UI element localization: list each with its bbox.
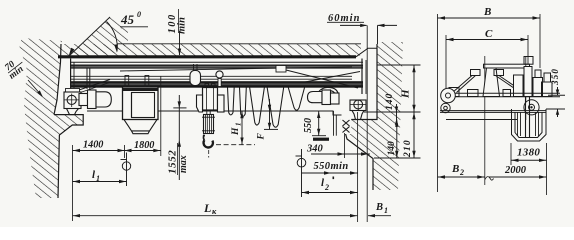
bridge right end plate: [361, 59, 363, 95]
right trolley wheel: [524, 100, 539, 115]
right wheel: [354, 100, 363, 109]
left tie rod: [73, 80, 110, 93]
extension pair under bridge end: [333, 111, 335, 136]
svg-text:B: B: [483, 6, 491, 18]
wall corner notch: [356, 48, 378, 57]
bridge stiffener: [86, 68, 88, 89]
dim H: [413, 65, 415, 112]
svg-text:1: 1: [384, 206, 388, 215]
right truck cable bracket: [316, 87, 339, 101]
svg-text:2: 2: [459, 168, 464, 177]
ext lines: [72, 145, 74, 221]
label 350: [550, 68, 560, 86]
center line: [484, 56, 486, 185]
dim 100 min arrow: [179, 31, 181, 55]
festoon loop 1: [228, 87, 235, 115]
svg-text:F: F: [257, 133, 267, 141]
svg-text:60min: 60min: [328, 13, 360, 24]
right festoon wire end: [305, 72, 360, 83]
dim C: [446, 39, 528, 41]
svg-text:1: 1: [96, 174, 100, 183]
hoist axis line: [525, 56, 527, 120]
left wall inner face: [54, 44, 61, 115]
platform lines: [446, 92, 560, 94]
dim 140 lower: [396, 120, 398, 159]
dim 60 min: [327, 21, 364, 23]
left rail section: [67, 109, 79, 115]
dim l1: [73, 181, 127, 183]
right bracket: [494, 70, 504, 76]
svg-text:C: C: [485, 28, 493, 40]
hook extreme block: [313, 138, 329, 141]
hook: [204, 140, 213, 147]
dim 140 upper: [396, 104, 398, 127]
girder section outer: [512, 109, 547, 141]
ceiling bottom thick line: [58, 55, 356, 58]
hoist body: [203, 88, 218, 111]
bridge top runway line: [71, 61, 363, 63]
left bracket: [471, 70, 481, 76]
dim B2: [438, 176, 485, 178]
cab body: [123, 87, 159, 120]
hook block: [204, 115, 214, 134]
svg-text:1800: 1800: [134, 140, 154, 151]
label H1: [231, 123, 243, 137]
cab window: [132, 93, 155, 118]
svg-text:550: 550: [303, 118, 314, 133]
dim 350 ticks: [548, 94, 565, 96]
svg-text:H: H: [400, 89, 412, 99]
right drive motor: [308, 92, 323, 103]
label 100 min: [167, 13, 188, 34]
dim 45 deg line: [68, 17, 110, 57]
dim 2000: [489, 176, 547, 178]
left end truck wheel box: [66, 89, 80, 93]
dim 1400 1800 line: [73, 150, 161, 152]
svg-text:350: 350: [550, 68, 560, 86]
left hook mark: [122, 162, 130, 170]
platform feet: [468, 90, 479, 97]
hoist cylinder: [524, 67, 532, 97]
svg-text:к: к: [212, 206, 217, 216]
dim 550min: [302, 172, 358, 174]
dim 1380: [511, 159, 547, 161]
right diagonal brace: [499, 76, 524, 93]
svg-text:B: B: [451, 163, 459, 175]
svg-text:0: 0: [137, 10, 141, 19]
hoist right wing: [218, 95, 225, 112]
bridge top chord double line: [71, 65, 363, 68]
festoon loop 3: [250, 87, 265, 126]
right tie rod: [276, 68, 358, 89]
svg-text:140: 140: [387, 141, 397, 156]
festoon loop 4: [267, 87, 284, 128]
svg-text:1552: 1552: [167, 150, 179, 174]
girder section inner: [515, 112, 542, 137]
dim Lk: [73, 215, 358, 217]
label 70 min: [2, 55, 29, 82]
dim F: [269, 99, 271, 129]
svg-text:1380: 1380: [517, 147, 540, 159]
cylinder cap: [524, 57, 533, 65]
svg-text:2: 2: [324, 183, 329, 192]
svg-text:2000: 2000: [504, 165, 527, 176]
hook block ropes: [206, 110, 208, 115]
girder bottom line: [87, 111, 342, 115]
end beam lines: [440, 110, 546, 112]
hook ram: [525, 97, 527, 138]
hoist left wing: [197, 95, 203, 112]
corner slope hatch wedge: [68, 17, 128, 57]
dim l2: [302, 192, 358, 194]
svg-text:140: 140: [385, 93, 395, 110]
dim B1: [368, 215, 391, 217]
festoon loop 5: [288, 87, 305, 111]
trolley post circle: [216, 71, 223, 78]
svg-text:45: 45: [120, 12, 135, 27]
dim H1: [241, 111, 243, 145]
festoon loop 2: [240, 87, 247, 116]
svg-text:340: 340: [306, 144, 324, 155]
svg-text:1400: 1400: [83, 140, 103, 151]
left wheel: [67, 95, 76, 104]
left wall hatch: [19, 38, 83, 198]
hoist blocks: [514, 75, 524, 97]
svg-text:210: 210: [403, 139, 413, 158]
trolley top plate: [484, 64, 530, 68]
girder band: [71, 81, 363, 87]
left diagonal brace: [453, 76, 473, 93]
left trolley wheel: [441, 88, 456, 103]
label 210: [403, 139, 413, 158]
hook extreme X marks: [341, 119, 351, 135]
dim 210: [413, 112, 415, 158]
dim 550 vertical: [318, 111, 320, 136]
right hook mark: [297, 158, 306, 167]
ceiling hatch band: [60, 44, 361, 56]
ceiling top line: [117, 43, 361, 45]
svg-text:1: 1: [235, 123, 243, 127]
cab hangers: [125, 76, 129, 88]
dim 340: [311, 153, 370, 155]
left drive motor: [79, 94, 88, 106]
right wall hatch: [342, 42, 404, 190]
girder inner flanges: [517, 112, 519, 136]
svg-text:H: H: [231, 127, 241, 136]
svg-text:B: B: [375, 202, 383, 213]
label 550 vertical: [303, 118, 314, 133]
label 140 lower: [387, 141, 397, 156]
pylon: [483, 68, 500, 97]
cab skirt: [124, 120, 157, 131]
right rail section: [352, 111, 364, 120]
festoon wire: [120, 67, 352, 71]
label 140 upper: [385, 93, 395, 110]
dim 1552 max line: [178, 95, 180, 180]
right-side gear blocks: [542, 82, 553, 97]
bridge left end plate: [70, 59, 72, 93]
right wheel box: [350, 100, 366, 111]
svg-text:max: max: [178, 155, 189, 173]
right side reference lines: [377, 64, 421, 66]
right wall face: [342, 44, 378, 190]
label 1552 max: [167, 150, 190, 174]
left corbel outline: [54, 115, 83, 198]
svg-text:550min: 550min: [314, 161, 349, 172]
dim B: [438, 17, 541, 19]
handrail line pair: [71, 75, 352, 77]
svg-text:L: L: [203, 201, 211, 215]
trolley cable drum: [190, 71, 201, 86]
label F: [257, 133, 267, 141]
label H right: [400, 89, 412, 99]
